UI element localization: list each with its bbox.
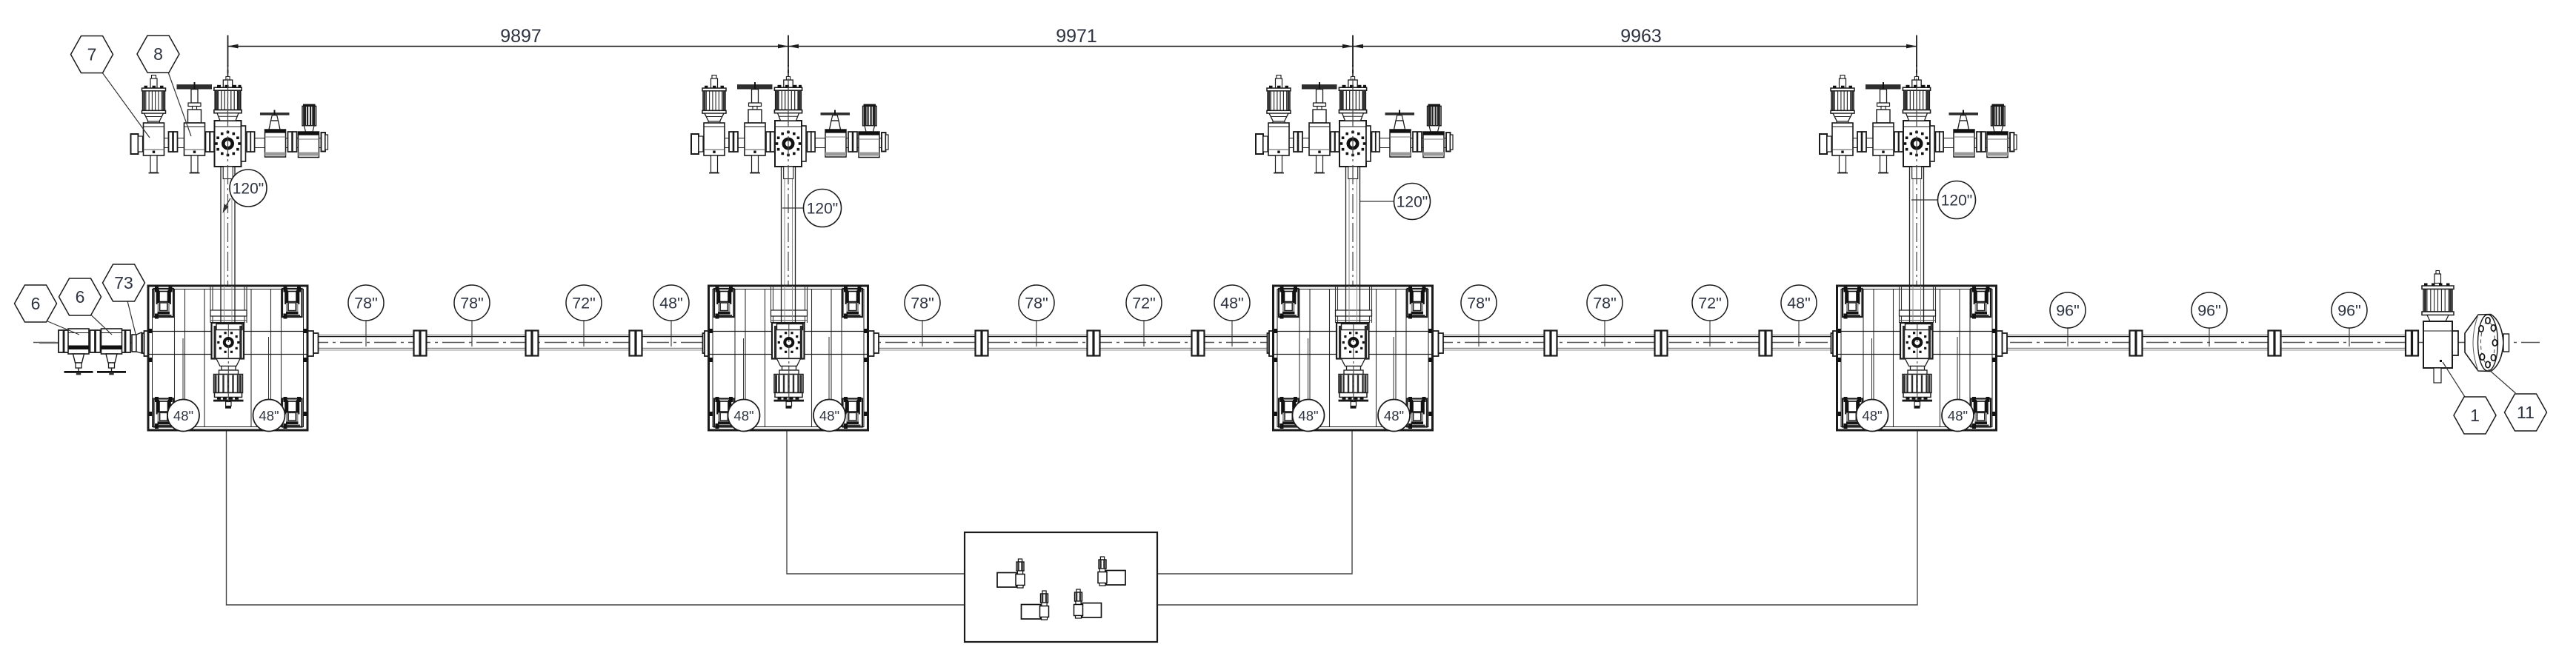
left feed pipe [39, 342, 148, 344]
svg-text:73: 73 [114, 273, 133, 292]
svg-text:78": 78" [911, 295, 934, 312]
control valve 4 [1074, 589, 1102, 618]
pipeline flange pair at x=2383 [1760, 331, 1772, 356]
dimension extension tick [788, 36, 789, 67]
pipeline flange pair at x=2093 [1545, 331, 1557, 356]
control valve 1 [997, 559, 1025, 588]
feed drain valve 2 [97, 329, 126, 375]
pipe size label 78" [922, 321, 923, 346]
control valve 3 [1022, 591, 1049, 620]
svg-text:78": 78" [1467, 295, 1491, 312]
dimension extension tick [227, 36, 229, 67]
feed drain valve 1 [64, 329, 93, 375]
end cone flange [2452, 331, 2458, 355]
pipe size label 78" [1478, 321, 1480, 346]
dimension line 9897 [228, 46, 789, 47]
pipe size label 72" [1143, 321, 1145, 346]
pipe size label 72" [1709, 321, 1711, 346]
pipeline flange pair at x=2883 [2130, 331, 2143, 356]
wellhead tree 3 [1256, 65, 1453, 286]
dimension line 9971 [788, 46, 1353, 47]
dimension line 9963 [1353, 46, 1917, 47]
control box [965, 532, 1157, 642]
control line from skid 2 [787, 430, 965, 574]
svg-text:78": 78" [1025, 295, 1048, 312]
svg-text:120": 120" [807, 201, 839, 218]
pipe size label 78" [1604, 321, 1605, 346]
svg-text:9963: 9963 [1620, 26, 1662, 47]
pipe size label 78" [471, 321, 473, 346]
dimension arrows [228, 44, 239, 49]
skid 1 inlet adapter [132, 335, 136, 352]
pipeline flange pair at x=3070 [2269, 331, 2281, 356]
svg-text:11: 11 [2517, 403, 2535, 422]
svg-text:6: 6 [31, 294, 41, 313]
pipe size label 96" [2209, 328, 2210, 346]
svg-text:48": 48" [1787, 295, 1811, 312]
control line from skid 4 [1157, 430, 1917, 605]
end valve actuator [2436, 271, 2440, 275]
svg-text:96": 96" [2337, 302, 2361, 320]
dimension extension tick [1352, 36, 1354, 67]
svg-text:7: 7 [87, 45, 97, 64]
main pipeline body [136, 334, 2409, 335]
feed line flange pair [59, 330, 69, 352]
svg-text:48": 48" [659, 295, 683, 312]
pipe size label 96" [2349, 328, 2350, 346]
svg-text:48": 48" [1220, 295, 1244, 312]
dimension extension tick [1916, 36, 1917, 67]
svg-text:9897: 9897 [500, 26, 542, 47]
svg-text:78": 78" [1593, 295, 1617, 312]
skid 2 [703, 286, 879, 432]
svg-text:96": 96" [2056, 302, 2080, 320]
control valve 2 [1098, 557, 1125, 586]
pipeline flange pair at x=1325 [976, 331, 988, 356]
pipe size label 96" [2067, 328, 2069, 346]
pipe size label 48" [670, 321, 672, 346]
svg-text:120": 120" [1397, 194, 1428, 211]
hexagon callout 73 [127, 301, 136, 338]
label 120" tree 3 [1359, 201, 1394, 202]
skid 1 [142, 286, 319, 432]
pipeline flange pair at x=718 [526, 331, 539, 356]
control line from skid 1 [227, 430, 965, 605]
wellhead tree 4 [1820, 65, 2017, 286]
svg-text:78": 78" [460, 295, 484, 312]
svg-text:78": 78" [354, 295, 378, 312]
svg-text:96": 96" [2197, 302, 2221, 320]
svg-text:6: 6 [76, 287, 85, 307]
hexagon callout 7 [102, 73, 150, 138]
pipeline flange pair at x=3255.5 [2406, 331, 2418, 356]
pipe size label 78" [1036, 321, 1037, 346]
hexagon callout 11 [2489, 369, 2516, 393]
hexagon callout 1 [2443, 362, 2465, 397]
skid 3 [1268, 286, 1444, 432]
pipeline centerline [33, 342, 2540, 344]
hexagon callout 6 [90, 315, 112, 335]
control line from skid 3 [1157, 430, 1352, 574]
pig launcher cone [2465, 315, 2503, 372]
svg-text:72": 72" [1698, 295, 1722, 312]
label 120" tree 1 [224, 198, 230, 208]
hexagon callout 8 [168, 73, 191, 137]
svg-text:1: 1 [2470, 406, 2480, 425]
label 120" tree 2 [782, 207, 804, 209]
wellhead tree 1 [131, 65, 328, 286]
feed line flange pair [90, 330, 101, 352]
end valve block [2423, 321, 2452, 368]
svg-text:9971: 9971 [1056, 26, 1097, 47]
pipeline flange pair at x=2242 [1655, 331, 1668, 356]
pipe size label 72" [583, 321, 585, 346]
pipeline flange pair at x=1476 [1088, 331, 1100, 356]
feed line flange pair [120, 330, 130, 352]
pipeline flange pair at x=567 [414, 331, 427, 356]
pipe size label 48" [1231, 321, 1233, 346]
hexagon callout 6 [46, 321, 79, 335]
svg-text:72": 72" [572, 295, 596, 312]
label 120" tree 4 [1911, 199, 1938, 201]
svg-text:120": 120" [1941, 192, 1973, 210]
svg-text:72": 72" [1132, 295, 1156, 312]
pipeline flange pair at x=1617 [1192, 331, 1205, 356]
skid 4 [1831, 286, 2008, 432]
svg-text:8: 8 [153, 44, 163, 64]
svg-text:120": 120" [233, 181, 264, 198]
pipe size label 78" [365, 321, 367, 346]
pipe size label 48" [1798, 321, 1800, 346]
wellhead tree 2 [691, 65, 888, 286]
pipeline flange pair at x=858 [630, 331, 642, 356]
